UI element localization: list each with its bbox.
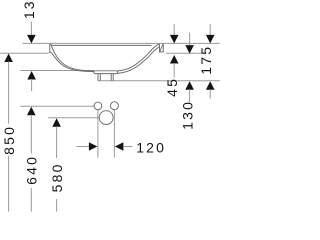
- dimension 175: [198, 24, 215, 99]
- washbasin cross-section outline: [49, 43, 163, 80]
- dimension 13 callout: [21, 0, 37, 91]
- wire: rim-bottom extension line right L2r: [166, 52, 202, 54]
- wire: drain-circle extension line L6: [48, 117, 99, 119]
- basin inner bowl wall left: [51, 44, 94, 71]
- svg-text:850: 850: [1, 125, 17, 155]
- svg-text:13: 13: [21, 0, 37, 19]
- dimension 580 line: [49, 118, 65, 211]
- wire: bowl-bottom extension line L3: [20, 70, 94, 72]
- svg-text:580: 580: [49, 162, 65, 192]
- tap-hole centre extension line left: [97, 110, 99, 158]
- basin left rim edge: [49, 43, 52, 53]
- dimension 130: [180, 33, 196, 130]
- drain body right walls: [111, 74, 113, 81]
- wire: counter line left L2: [0, 52, 49, 54]
- svg-text:45: 45: [164, 77, 180, 97]
- svg-text:175: 175: [198, 45, 214, 75]
- lower view: drain circle: [99, 111, 113, 125]
- basin inner bowl wall right: [118, 44, 160, 71]
- wire: tap-hole extension line L5: [20, 105, 94, 107]
- drain body left walls: [98, 74, 100, 81]
- drain flange: [94, 71, 118, 74]
- dimension 850 line: [1, 54, 17, 212]
- tap-hole centre extension line right: [113, 110, 115, 158]
- svg-text:120: 120: [136, 139, 166, 155]
- basin outer bowl wall left: [52, 54, 94, 72]
- lower view: faucet hole circle right: [110, 102, 118, 110]
- svg-text:130: 130: [180, 100, 196, 130]
- wire: rim-top extension line L1: [22, 42, 220, 44]
- dimension 45: [164, 24, 180, 97]
- basin right rim hatch: [160, 44, 163, 52]
- dimension 120: [76, 110, 166, 158]
- basin right rim cut section: [160, 44, 164, 52]
- dimension 13 lower arrow: [27, 71, 36, 80]
- basin outer bowl wall right: [118, 47, 160, 74]
- dimension 640 line: [23, 107, 39, 212]
- wire: basin-bottom extension line L4: [98, 80, 220, 82]
- lower view: faucet hole circle left: [94, 102, 102, 110]
- svg-text:640: 640: [23, 155, 39, 185]
- basin back rim line: [51, 44, 151, 46]
